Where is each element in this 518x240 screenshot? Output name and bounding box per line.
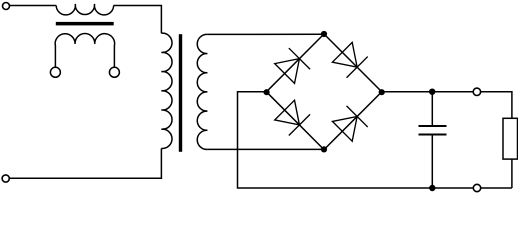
node left junction dot: [264, 89, 270, 95]
wire T1 secondary left lead: [54, 46, 56, 68]
terminal T1 secondary right: [109, 67, 119, 77]
wire bridge edge top-right: [324, 34, 382, 92]
wire bridge edge left-top: [266, 34, 324, 92]
node capacitor top junction dot: [429, 89, 435, 95]
wire capacitor C1 top lead: [431, 92, 433, 126]
wire bridge edge left-bottom: [266, 92, 324, 150]
wire top rail right of J3: [481, 92, 512, 119]
transformer T2 secondary winding: [197, 34, 207, 149]
wire secondary top to bridge top node: [207, 33, 324, 35]
diode D3 (left node to bottom node): [275, 100, 310, 135]
wire bridge left node to bottom rail: [238, 92, 474, 188]
node bottom junction dot: [321, 146, 327, 152]
wire J1 to T1 primary: [10, 5, 57, 7]
terminal J1 (top-left input): [3, 3, 10, 10]
terminal T1 secondary left: [50, 67, 60, 77]
terminal J4 (DC output bottom): [473, 184, 480, 191]
wire resistor RL bottom lead: [511, 159, 513, 188]
wire T2 primary bottom to terminal J2: [9, 148, 161, 178]
capacitor C1 bottom plate: [419, 134, 447, 136]
node top junction dot: [321, 31, 327, 37]
diode D2 (top node to right node): [332, 42, 367, 77]
diode D4 (bottom node to right node): [332, 106, 367, 141]
inductor T1 bottom winding: [55, 34, 114, 46]
terminal J2 (bottom-left input): [2, 175, 9, 182]
wire secondary bottom to bridge bottom node: [207, 148, 324, 150]
capacitor C1 top plate: [419, 125, 447, 127]
inductor T1 top winding: [56, 4, 113, 15]
node right junction dot: [379, 89, 385, 95]
diode D1 (left node to top node): [275, 48, 310, 83]
terminal J3 (DC output top): [473, 88, 480, 95]
transformer T2 core bar: [179, 34, 182, 152]
wire T1 to transformer T2 primary top: [114, 6, 162, 34]
node capacitor bottom junction dot: [429, 185, 435, 191]
wire bridge right node to top rail: [382, 91, 473, 93]
transformer T2 primary winding: [161, 33, 172, 148]
wire capacitor C1 bottom lead: [431, 135, 433, 189]
resistor RL (load): [503, 118, 518, 159]
wire bridge edge bottom-right: [324, 92, 382, 150]
wire bottom rail right of J4: [481, 187, 512, 189]
wire T1 secondary right lead: [113, 46, 115, 68]
core bar T1: [56, 22, 114, 26]
